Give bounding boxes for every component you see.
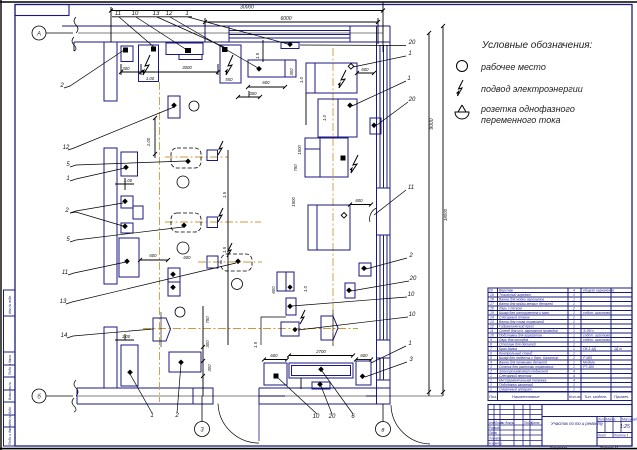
bottom-left rect R2 [169, 352, 201, 372]
lightning M1 [338, 70, 346, 88]
socket Rj [292, 327, 297, 332]
leader 2 to Ro [366, 258, 407, 269]
door arc right wall [370, 208, 377, 222]
axis 3 circle [376, 422, 391, 437]
svg-text:1: 1 [185, 11, 188, 17]
leader 10 bottom [277, 377, 317, 414]
svg-text:Дата: Дата [530, 421, 540, 425]
svg-text:подвод электроэнергии: подвод электроэнергии [481, 84, 583, 94]
svg-text:1.00: 1.00 [122, 334, 131, 339]
svg-text:1: 1 [490, 388, 492, 392]
svg-text:1: 1 [66, 176, 69, 182]
svg-text:1.5: 1.5 [253, 341, 258, 348]
socket Rn [371, 123, 377, 129]
lightning machine2 [142, 55, 150, 75]
svg-text:17: 17 [490, 302, 494, 306]
partition wall bottom segment [104, 327, 117, 388]
svg-text:14: 14 [490, 316, 494, 320]
svg-text:1: 1 [573, 298, 575, 302]
svg-text:550: 550 [225, 77, 233, 82]
svg-text:Кран-балка: Кран-балка [499, 347, 517, 351]
svg-text:Ванна для мойки мелких деталей: Ванна для мойки мелких деталей [499, 302, 553, 306]
title block left grid verticals [493, 405, 495, 447]
dashed machine D2 [171, 213, 201, 232]
dim line 6000 [205, 21, 378, 23]
leader 20 bottom [321, 386, 332, 414]
svg-text:300: 300 [205, 340, 210, 348]
svg-text:Формат А1: Формат А1 [600, 446, 619, 450]
right wall window lines lower [379, 358, 381, 380]
svg-text:2700: 2700 [315, 349, 326, 354]
stand Rg lower [168, 282, 180, 296]
top wall outer line [62, 25, 390, 27]
bottom row rect Rk [264, 363, 287, 385]
svg-text:14: 14 [61, 333, 68, 339]
svg-text:20: 20 [409, 276, 417, 282]
dim line 30000 [111, 10, 383, 12]
machine M4 [308, 205, 350, 250]
svg-text:11: 11 [115, 11, 121, 17]
svg-text:600: 600 [262, 80, 270, 85]
centerline row 2 [165, 221, 261, 223]
legend circle symbol [457, 61, 468, 72]
axis break top [74, 17, 78, 33]
top-left corner box [15, 5, 69, 16]
leader 6 bottom [322, 371, 353, 414]
socket Rb [122, 199, 128, 205]
svg-text:№ докум.: № докум. [501, 421, 515, 425]
socket R1 [127, 370, 133, 376]
title block lit-mass-scale [596, 417, 598, 447]
top wall pier edges [204, 26, 206, 42]
svg-text:Подъёмник канавный: Подъёмник канавный [499, 383, 533, 387]
dim tick 100 under Ra [115, 183, 134, 185]
svg-text:Смазочный аппарат: Смазочный аппарат [499, 388, 532, 392]
blue square S2 [207, 217, 218, 228]
svg-text:1.00: 1.00 [146, 76, 155, 81]
leader 5 left [70, 161, 186, 167]
svg-text:600: 600 [361, 67, 369, 72]
partition wall middle segment [104, 148, 117, 284]
svg-text:2: 2 [572, 307, 575, 311]
svg-text:1: 1 [573, 329, 575, 333]
leader 1 left [70, 168, 125, 181]
bottom-left rect R1 [121, 345, 138, 386]
svg-text:1: 1 [573, 343, 575, 347]
socket wall top diamond [287, 42, 293, 48]
svg-text:1: 1 [573, 361, 575, 365]
svg-text:Подставка для агрегатов: Подставка для агрегатов [499, 334, 542, 338]
centerline vertical 2 [332, 48, 334, 345]
svg-text:600: 600 [360, 353, 368, 358]
socket Rp [346, 288, 352, 294]
socket D3 [235, 259, 241, 265]
socket Rl [360, 374, 366, 380]
svg-text:А: А [36, 32, 41, 38]
specification table grid [488, 288, 632, 401]
svg-text:1.0: 1.0 [303, 285, 308, 292]
svg-text:Пров.: Пров. [489, 431, 498, 435]
svg-text:1: 1 [573, 352, 575, 356]
workplace circle 5 [175, 307, 185, 317]
svg-text:Разраб.: Разраб. [489, 426, 501, 430]
svg-text:Примеч.: Примеч. [614, 394, 629, 399]
label underline top [112, 16, 192, 18]
svg-text:6: 6 [490, 352, 492, 356]
svg-text:20: 20 [408, 97, 416, 103]
axis 3 drop line [382, 404, 384, 422]
svg-text:9000: 9000 [429, 118, 435, 129]
bottom wall left segment [77, 387, 213, 389]
svg-text:4: 4 [490, 361, 492, 365]
svg-text:Н.контр.: Н.контр. [489, 442, 503, 446]
svg-text:Тип, модель: Тип, модель [584, 394, 607, 399]
svg-text:5: 5 [490, 356, 492, 360]
leader 11 to door [374, 190, 406, 215]
title block small texts [489, 418, 637, 446]
svg-text:10: 10 [408, 292, 415, 298]
axis A line [46, 32, 73, 34]
svg-text:Инв.№ подл.: Инв.№ подл. [8, 295, 12, 314]
legend socket symbol [455, 105, 469, 119]
dim line 300-3000 row [121, 71, 218, 73]
leader 10 to Ri [292, 297, 407, 306]
svg-text:18: 18 [490, 298, 494, 302]
socket M1 diamond [348, 64, 354, 70]
right wall window lines middle [379, 235, 381, 340]
centerline pentagon row [143, 328, 358, 330]
partition wall top segment [104, 42, 117, 101]
svg-text:Участок по то и ремонту: Участок по то и ремонту [551, 421, 604, 426]
title block outer [488, 405, 632, 447]
socket sq bench top [185, 48, 191, 53]
svg-text:7: 7 [490, 347, 492, 351]
svg-text:1.5: 1.5 [255, 52, 260, 59]
machine rect top row 3 [220, 45, 241, 83]
workplace circle 3 [177, 242, 189, 254]
svg-text:30000: 30000 [240, 5, 254, 11]
leader 1 bottom [130, 374, 152, 413]
svg-text:10: 10 [409, 312, 416, 318]
dim vertical x203 [202, 306, 204, 396]
centerline row 1 [165, 156, 228, 158]
svg-text:2: 2 [408, 253, 413, 259]
title block right top row [542, 416, 632, 418]
socket Rm [317, 382, 323, 388]
svg-text:300: 300 [289, 68, 294, 76]
wide bench top [166, 43, 203, 55]
svg-text:Кол-во: Кол-во [569, 394, 582, 399]
pentagon 1 axis tick [160, 312, 162, 347]
left strip upper box [4, 290, 16, 316]
socket M4 diamond [341, 213, 347, 219]
svg-text:1500: 1500 [297, 145, 302, 155]
svg-text:собст. изготовл.: собст. изготовл. [583, 334, 611, 338]
svg-text:13: 13 [490, 320, 494, 324]
leader 2 left [64, 50, 124, 88]
machine M3 [305, 138, 348, 177]
svg-text:1: 1 [573, 334, 575, 338]
socket Ro [361, 266, 367, 272]
centerline row 3 [198, 261, 262, 263]
svg-text:1: 1 [573, 316, 575, 320]
svg-text:11: 11 [490, 329, 494, 333]
svg-text:600: 600 [270, 353, 278, 358]
svg-text:2: 2 [572, 356, 575, 360]
leader 1 top [188, 17, 288, 44]
lightning S1 [218, 141, 223, 155]
socket Ra [123, 165, 129, 171]
svg-text:Ванна для слива тормозной: Ванна для слива тормозной [499, 320, 544, 324]
svg-text:Инструментальная тележка: Инструментальная тележка [499, 379, 546, 383]
socket Ri [287, 304, 293, 310]
socket M3 sq [341, 156, 346, 161]
svg-text:переменного тока: переменного тока [481, 115, 560, 125]
dim line 600 Rl [356, 359, 371, 361]
socket machine4 [256, 66, 262, 72]
machine rect top row 1 [121, 46, 133, 62]
top wall window lines [229, 30, 350, 32]
svg-text:1Д т: 1Д т [614, 347, 622, 351]
svg-text:1: 1 [573, 338, 575, 342]
svg-text:12: 12 [490, 325, 494, 329]
axis break bottom [74, 380, 78, 396]
pentagon machine 1 [153, 318, 171, 341]
dim vertical x228 long [227, 150, 229, 345]
blue square S1 [207, 150, 218, 161]
socket sq machine3 [222, 47, 228, 52]
bottom row rect Rl [356, 361, 371, 385]
svg-text:Модель: Модель [583, 361, 595, 365]
svg-text:8: 8 [490, 343, 492, 347]
svg-text:собст. изготовл.: собст. изготовл. [583, 338, 611, 342]
svg-text:Э-ЭН-с: Э-ЭН-с [583, 329, 594, 333]
socket Rk sq [274, 374, 279, 379]
svg-text:Р-985: Р-985 [583, 356, 592, 360]
lightning S3 [227, 243, 232, 257]
svg-text:10: 10 [490, 334, 494, 338]
socket Re [124, 259, 130, 265]
svg-text:4: 4 [573, 370, 575, 374]
svg-text:750: 750 [205, 316, 210, 324]
bottom rect Rm [312, 382, 330, 389]
svg-text:Контрольный стенд: Контрольный стенд [499, 352, 532, 356]
svg-text:2: 2 [489, 370, 492, 374]
svg-text:12: 12 [166, 11, 173, 17]
svg-text:12: 12 [63, 145, 70, 151]
svg-text:Наименование: Наименование [512, 394, 540, 399]
svg-text:600: 600 [149, 253, 157, 258]
axis 2 circle [195, 422, 210, 437]
partition rect Re [119, 238, 139, 277]
leader 20 to Rp [351, 281, 409, 291]
svg-text:Гидравлический пресс: Гидравлический пресс [499, 325, 535, 329]
leader 1 to Rl [371, 346, 406, 363]
rect Ri [286, 298, 296, 315]
small rect Rp [345, 283, 355, 298]
dim tick 100 bottomleft [115, 339, 134, 341]
svg-text:1: 1 [150, 413, 153, 419]
svg-text:1: 1 [490, 379, 492, 383]
leader 1 to M2 [352, 81, 406, 106]
dim ext vertical x263 [262, 40, 264, 62]
svg-text:Масштаб: Масштаб [622, 418, 637, 422]
svg-text:2: 2 [59, 83, 64, 89]
svg-text:Инв.№ дубл.: Инв.№ дубл. [8, 406, 12, 425]
leader 14 left [67, 329, 153, 338]
axis A circle [32, 26, 46, 40]
leader 20 right top [300, 44, 406, 47]
right wall bottom corner block [377, 380, 391, 404]
leader 12 left [68, 107, 174, 150]
right wall inner line [376, 26, 378, 404]
left strip lower boxes [4, 352, 16, 446]
pentagon 2 axis tick [332, 310, 334, 346]
svg-text:собст. изготовл.: собст. изготовл. [583, 311, 611, 315]
workplace circle 2 [177, 176, 189, 188]
svg-text:Масса: Масса [606, 418, 616, 422]
dim vertical x306 [305, 93, 307, 125]
socket sq machine1 [123, 48, 128, 53]
dashed machine D3 [221, 254, 252, 271]
dim ticks 30000 [109, 9, 385, 25]
specification header row [488, 391, 632, 393]
svg-text:1:25: 1:25 [620, 424, 630, 430]
svg-text:Поз.: Поз. [489, 394, 497, 399]
bottom wall left pier [193, 388, 213, 404]
svg-text:20: 20 [328, 414, 336, 420]
workplace circle 4 [232, 279, 243, 290]
svg-text:4: 4 [573, 374, 575, 378]
dim line under machine4 [248, 86, 285, 88]
socket Rg1 [170, 272, 176, 278]
svg-text:1: 1 [573, 302, 575, 306]
svg-text:Ванна для промывки деталей: Ванна для промывки деталей [499, 361, 547, 365]
svg-text:Стеллаж для деталей: Стеллаж для деталей [499, 343, 536, 347]
dim line 600 Rk [264, 359, 287, 361]
svg-text:1.5: 1.5 [222, 191, 227, 198]
svg-text:600: 600 [183, 255, 191, 260]
leader 13 top [157, 17, 224, 47]
right wall window lines upper [379, 45, 381, 188]
svg-text:10: 10 [132, 11, 139, 17]
right wall outer line [389, 26, 391, 404]
svg-text:4: 4 [573, 379, 575, 383]
svg-text:Т.контр.: Т.контр. [489, 437, 502, 441]
svg-text:1: 1 [407, 76, 410, 82]
svg-text:1: 1 [573, 388, 575, 392]
svg-text:4: 4 [573, 289, 575, 293]
rect Rj [281, 322, 299, 336]
axis 2 drop line [201, 396, 203, 422]
dim line 2700 bench [289, 355, 353, 357]
svg-text:Станок для расточки тормозных: Станок для расточки тормозных [499, 365, 554, 369]
bottom bench inner line [292, 366, 351, 376]
small rect Ro [359, 263, 371, 276]
axis B line [46, 395, 73, 397]
wall cabinet Rn [370, 118, 381, 134]
blue square S3 [207, 256, 218, 268]
svg-text:Копировал: Копировал [550, 446, 567, 450]
svg-text:20: 20 [488, 289, 493, 293]
svg-text:в: в [381, 428, 384, 434]
svg-text:1: 1 [573, 365, 575, 369]
svg-text:Листов 1: Листов 1 [613, 434, 628, 438]
svg-text:6000: 6000 [280, 16, 291, 22]
svg-text:Подп. и дата: Подп. и дата [8, 355, 12, 375]
svg-text:300: 300 [207, 364, 212, 372]
svg-text:10: 10 [313, 414, 320, 420]
svg-text:3000: 3000 [182, 65, 192, 70]
svg-text:19: 19 [490, 293, 494, 297]
bottom wall right segment [259, 387, 390, 389]
dim line 600 M4 [350, 204, 371, 206]
svg-text:Точильный агрегат: Точильный агрегат [499, 293, 531, 297]
socket cabinet [171, 103, 177, 109]
partition rect Rc [133, 206, 143, 219]
step outline near Ri [261, 317, 286, 345]
svg-text:1: 1 [573, 383, 575, 387]
socket D1 [185, 159, 191, 165]
lightning S2 [218, 208, 223, 222]
svg-text:РТ-185: РТ-185 [583, 365, 594, 369]
svg-text:Слесарный верстак: Слесарный верстак [499, 374, 532, 378]
axis B circle [32, 389, 46, 403]
left margin strip column [3, 290, 5, 446]
svg-text:Электрогайковёрт подвесной: Электрогайковёрт подвесной [499, 370, 548, 374]
svg-text:300: 300 [122, 66, 130, 71]
svg-text:Взам.инв.№: Взам.инв.№ [8, 382, 12, 400]
svg-text:Подп. и дата: Подп. и дата [8, 425, 12, 445]
sheet left edge [0, 0, 2, 450]
svg-text:1: 1 [573, 293, 575, 297]
socket sq machine2 [151, 47, 156, 52]
svg-text:600: 600 [355, 198, 363, 203]
leader 1 to M1 [353, 56, 406, 67]
workplace circle 1 [189, 101, 199, 111]
partition rect Ra [121, 152, 138, 176]
machine M2 [318, 99, 357, 137]
svg-text:1.0: 1.0 [299, 76, 304, 83]
socket Rg2 [170, 285, 176, 291]
svg-text:11: 11 [408, 185, 414, 191]
svg-text:2: 2 [572, 311, 575, 315]
svg-text:1: 1 [573, 347, 575, 351]
svg-text:18000: 18000 [443, 208, 448, 221]
bottom bench [289, 363, 353, 378]
leader 10 top [136, 17, 187, 50]
svg-text:1: 1 [573, 320, 575, 324]
socket bench bottom [318, 367, 324, 373]
title block left grid rows [488, 409, 542, 411]
svg-text:15: 15 [490, 311, 494, 315]
svg-text:750: 750 [293, 164, 298, 172]
machine rect top row 4 [248, 60, 285, 77]
pentagon machine 2 [321, 316, 338, 340]
dim vertical x155 [154, 118, 156, 158]
svg-text:Ларь для отходов: Ларь для отходов [498, 338, 528, 342]
svg-text:1: 1 [573, 325, 575, 329]
svg-text:1: 1 [408, 51, 411, 57]
leader 12 top [170, 17, 258, 68]
svg-text:1.5: 1.5 [222, 246, 227, 253]
svg-text:Условные обозначения:: Условные обозначения: [481, 39, 593, 51]
sheet top edge [0, 1, 637, 3]
leader 5b left [70, 227, 183, 242]
dim vertical 18000 [442, 26, 444, 396]
door leaf bottom-left [258, 404, 260, 441]
svg-text:600: 600 [271, 286, 276, 294]
